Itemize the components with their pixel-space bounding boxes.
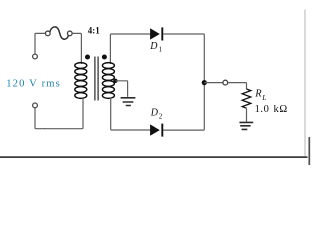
wire D1 cathode to right rail (163, 34, 204, 130)
svg-text:D: D (149, 41, 158, 52)
phase dot secondary (102, 55, 107, 60)
transformer core (95, 57, 98, 101)
center tap wire to ground (115, 81, 127, 97)
svg-text:2: 2 (159, 112, 163, 120)
diode D2 (150, 124, 162, 137)
ground (center tap) (121, 98, 136, 106)
secondary top lead wire (110, 34, 150, 64)
resistor bottom lead (246, 108, 248, 121)
page edge dark stub bottom-right (308, 137, 310, 165)
figure border bottom (0, 156, 308, 158)
secondary bottom lead wire to D2 (111, 98, 151, 130)
terminal circle T1 (source top) (33, 54, 38, 59)
output terminal circle (223, 80, 228, 85)
figure border right (light) (304, 10, 306, 157)
primary bottom lead wire (44, 98, 83, 129)
ground (load) (239, 122, 253, 129)
svg-text:1.0 kΩ: 1.0 kΩ (255, 104, 288, 115)
svg-text:1: 1 (159, 46, 163, 54)
svg-text:R: R (254, 89, 262, 100)
plug contact circle P2 (67, 31, 72, 36)
svg-text:4:1: 4:1 (88, 25, 100, 35)
terminal circle T2 (source bottom) (33, 103, 38, 108)
plug contact circle P1 (45, 31, 50, 36)
svg-text:L: L (261, 93, 266, 102)
wire top-left from plug corner to source terminal (35, 33, 46, 54)
wire from T2 down to bottom rail (35, 108, 45, 129)
output wire from junction to terminal (204, 82, 223, 84)
wire from output terminal to resistor (228, 83, 247, 89)
center tap node dot (113, 79, 117, 83)
junction node dot on right rail (202, 80, 207, 85)
svg-text:120 V rms: 120 V rms (6, 79, 60, 90)
transformer primary winding L1 (75, 63, 87, 99)
plug cord squiggle (50, 27, 68, 39)
wire from P2 to primary top lead (72, 33, 81, 64)
diode D1 (150, 27, 162, 40)
phase dot primary (85, 55, 90, 60)
svg-text:D: D (150, 107, 159, 118)
transformer secondary winding L2 (102, 63, 114, 99)
resistor RL zigzag (242, 89, 251, 108)
